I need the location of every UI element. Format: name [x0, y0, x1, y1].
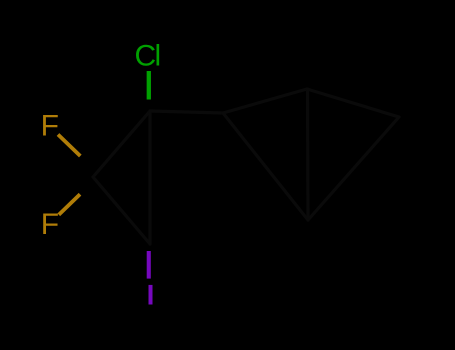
svg-text:C: C [135, 40, 157, 73]
svg-text:F: F [41, 208, 59, 241]
svg-text:F: F [41, 109, 59, 142]
svg-text:l: l [155, 40, 162, 73]
